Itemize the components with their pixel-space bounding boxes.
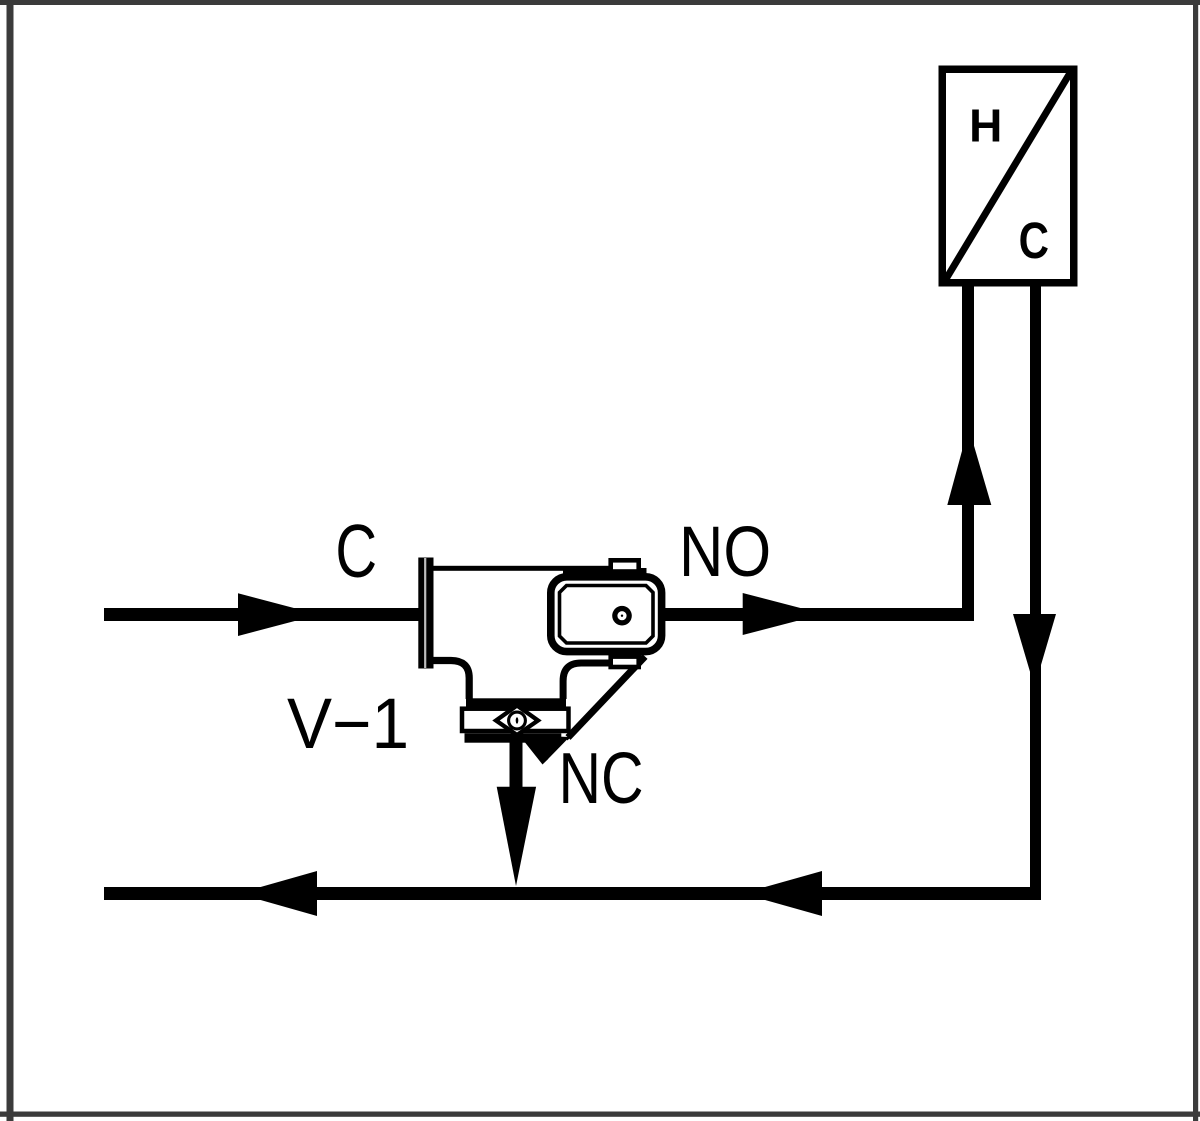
valve V-1 actuator top tab xyxy=(611,560,639,571)
arrowhead left on bottom line (right) xyxy=(742,871,822,916)
valve V-1 diamond circle xyxy=(509,712,526,729)
valve V-1 diamond xyxy=(496,706,538,736)
arrowhead up on riser xyxy=(947,427,991,505)
valve V-1 body top line xyxy=(434,566,613,571)
heat exchanger box xyxy=(942,69,1074,283)
valve V-1 NC port vee xyxy=(520,736,572,765)
valve V-1 bottom port lower bar xyxy=(465,733,562,742)
wire: hot riser up to heat exchanger xyxy=(962,286,974,621)
svg-text:C: C xyxy=(1019,212,1049,269)
arrowhead left on bottom line (left) xyxy=(238,871,317,916)
valve V-1 body right outline xyxy=(563,663,612,699)
arrowhead down on return line xyxy=(1013,614,1056,687)
wire: NC drop line from valve xyxy=(510,737,523,787)
svg-text:V−1: V−1 xyxy=(287,684,409,764)
arrowhead on supply line xyxy=(238,593,319,636)
sheet border bottom xyxy=(0,1112,1200,1117)
sheet border left xyxy=(7,0,14,1121)
wire: bottom return line xyxy=(104,887,1041,900)
valve V-1 actuator arm diagonal xyxy=(568,657,645,738)
valve V-1 body left outline xyxy=(434,661,470,700)
valve V-1 actuator bottom tab xyxy=(611,657,639,667)
arrowhead on NO line xyxy=(743,593,824,635)
valve V-1 flange (port C) xyxy=(418,558,433,669)
valve V-1 bottom port rect xyxy=(462,709,569,731)
svg-text:NO: NO xyxy=(679,513,771,592)
wire: return line from heat exchanger down xyxy=(1030,286,1041,900)
sheet border top xyxy=(0,0,1200,5)
valve V-1 bottom port top bar xyxy=(466,698,566,706)
arrowhead down on NC drop xyxy=(497,787,536,886)
wire: supply line into valve port C xyxy=(104,608,419,621)
valve V-1 body top bar under actuator xyxy=(563,568,647,575)
valve V-1 actuator body xyxy=(551,577,662,652)
heat exchanger diagonal xyxy=(946,73,1070,279)
svg-text:NC: NC xyxy=(559,737,644,818)
svg-text:H: H xyxy=(969,100,1002,152)
svg-text:C: C xyxy=(335,510,377,594)
wire: NO line from valve to heat exchanger riser xyxy=(665,608,975,621)
sheet border right xyxy=(1193,0,1198,1121)
valve V-1 actuator pivot dot xyxy=(612,606,632,626)
